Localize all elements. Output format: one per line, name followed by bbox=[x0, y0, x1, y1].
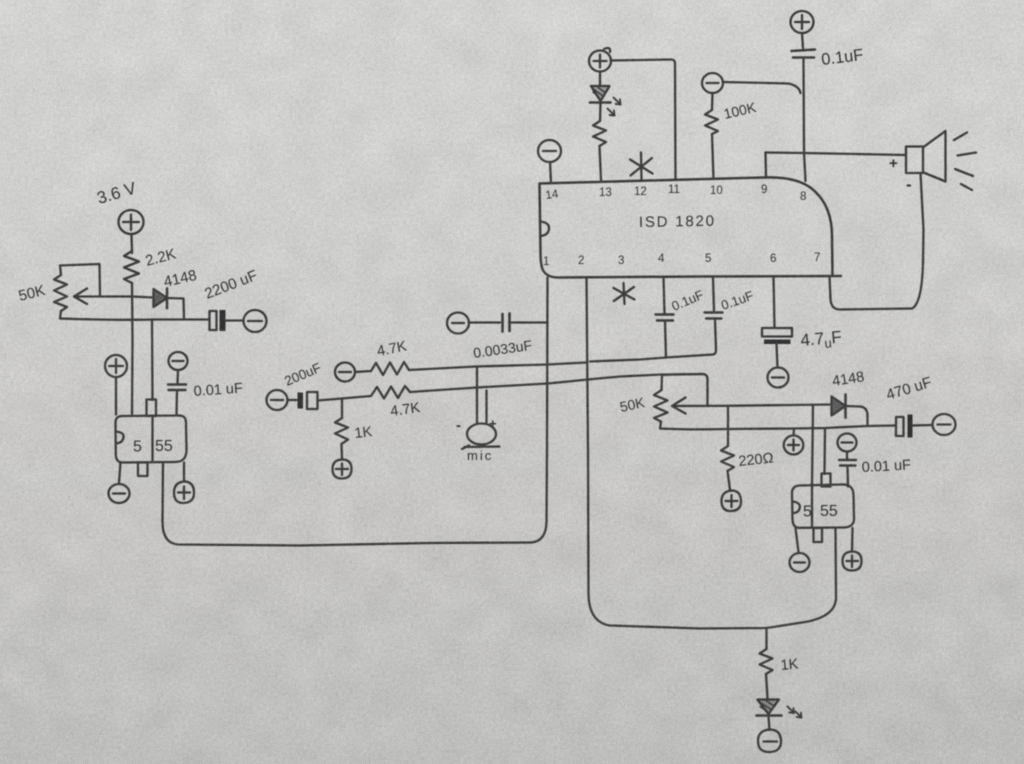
terminal minus before C4 bbox=[447, 313, 469, 334]
potentiometer VR1 50K bbox=[54, 275, 67, 311]
wire C5 down to pin 8 bbox=[804, 58, 806, 182]
pin box on top of U3 bbox=[822, 474, 831, 487]
wire U1 to minus terminal below bbox=[119, 463, 121, 484]
resistor R7 220 ohm bbox=[721, 446, 734, 471]
wire + to C5 bbox=[802, 33, 803, 48]
terminal minus above pin 14 bbox=[538, 140, 561, 162]
terminal + below U1 bbox=[174, 482, 194, 504]
terminal minus above R6 bbox=[702, 73, 723, 93]
mic polarity marks bbox=[456, 416, 497, 434]
terminal minus at bottom bbox=[758, 730, 781, 753]
wire R1 down to 555 U1 bbox=[131, 283, 134, 414]
pin number 10 bbox=[710, 185, 723, 197]
pin number 1 bbox=[543, 256, 549, 268]
resistor R8 1K bbox=[760, 649, 773, 674]
terminal minus after C9 bbox=[933, 414, 956, 435]
notch of U1 bbox=[116, 432, 124, 444]
wire pin 4 down bbox=[664, 277, 665, 313]
terminal minus below U1 bbox=[109, 484, 130, 503]
label 0.01 uF right bbox=[861, 457, 911, 476]
pin number 6 bbox=[770, 253, 776, 265]
wire rail A to 0.1uF caps rail bbox=[409, 355, 713, 371]
terminal + left of U1 bbox=[105, 355, 127, 377]
wire minus to C10 bbox=[846, 452, 848, 460]
speaker polarity marks bbox=[889, 155, 912, 194]
resistor R2 1K bbox=[335, 418, 348, 444]
wire minus to C3 bbox=[288, 399, 297, 401]
wire pin2 of U2 down around bottom loop to U3 bbox=[587, 278, 837, 629]
pin number 9 bbox=[761, 184, 767, 196]
label 200uF bbox=[282, 360, 323, 389]
speaker sound lines bbox=[954, 133, 976, 191]
label 1K bbox=[354, 424, 374, 442]
wire wiper line down through rail to R7 bbox=[727, 406, 729, 446]
LED LED2 bbox=[757, 700, 782, 716]
wire minus to R6 bbox=[711, 93, 714, 110]
wire U3 to plus below bbox=[851, 528, 854, 551]
wire diode-line junction down to U3 bbox=[812, 406, 813, 528]
potentiometer VR2 50K bbox=[654, 390, 668, 422]
wire + to LED1 bbox=[599, 72, 601, 86]
LED2 light arrows bbox=[788, 707, 802, 718]
pin number 3 bbox=[618, 255, 624, 267]
terminal + on rail bbox=[784, 429, 804, 455]
wire pin 6 down bbox=[774, 277, 775, 327]
pin number 12 bbox=[634, 186, 647, 198]
LED1 light arrows bbox=[608, 98, 621, 116]
wire minus terminal to C2 bbox=[176, 370, 179, 383]
mic terminal wires bbox=[477, 368, 487, 424]
terminal minus after C1 bbox=[244, 310, 267, 332]
capacitor C3 200uF bbox=[298, 392, 343, 409]
resistor R3 4.7K lower bbox=[342, 386, 410, 399]
label 2200 uF bbox=[202, 267, 259, 303]
pin box below U1 bbox=[138, 463, 148, 477]
terminal minus before R4 bbox=[335, 363, 355, 382]
label 4148 right bbox=[831, 369, 865, 390]
wire R6 to pin 10 bbox=[712, 134, 714, 179]
terminal + below R7 bbox=[722, 491, 742, 512]
label 2.2K bbox=[144, 245, 178, 269]
label 3.6 V bbox=[95, 178, 139, 207]
wire R8 to LED2 bbox=[766, 674, 768, 698]
label 4.7K upper bbox=[376, 338, 409, 359]
label 50K bbox=[17, 282, 47, 305]
capacitor C6 0.1uF bbox=[656, 315, 674, 321]
wire VR1 bottom rail to C1 bbox=[60, 311, 209, 320]
wire VR1 top loop to wiper bbox=[60, 264, 100, 296]
wire C6 to rail A bbox=[665, 321, 666, 358]
wire through U1 body bbox=[151, 416, 153, 461]
IC U2 ISD1820 body bbox=[540, 177, 842, 277]
wire pin 5 down bbox=[713, 278, 714, 312]
pin box on top of U1 bbox=[147, 400, 157, 417]
wire pin 9 up bbox=[764, 153, 767, 178]
wire to speaker + bbox=[766, 153, 907, 156]
capacitor C8 4.7uF bbox=[762, 328, 792, 344]
wiper arrow of VR2 bbox=[672, 398, 830, 414]
wire R5 to pin 13 bbox=[600, 146, 602, 180]
capacitor C9 470uF bbox=[896, 415, 931, 438]
star mark above pin 12 bbox=[630, 153, 653, 181]
label 0.1uF pin4 bbox=[669, 287, 706, 314]
wiper arrow of VR1 bbox=[74, 289, 153, 305]
wire C8 to minus terminal bbox=[777, 344, 778, 367]
pin number 4 bbox=[658, 253, 665, 265]
wire U1 to plus terminal below bbox=[183, 463, 185, 482]
timer U1 555 body bbox=[115, 415, 186, 462]
terminal + above LED1 bbox=[589, 48, 611, 72]
label 50K right bbox=[618, 394, 646, 415]
wire LED2 to minus terminal bbox=[769, 717, 770, 730]
terminal minus above C2 bbox=[169, 352, 188, 370]
terminal minus before C3 bbox=[267, 390, 288, 410]
wire minus terminal right to C5 line bbox=[723, 82, 801, 93]
wire D1 to lower rail bbox=[167, 298, 184, 319]
capacitor C2 0.01uF bbox=[168, 385, 186, 415]
star mark below pin 3 bbox=[614, 283, 635, 304]
capacitor C5 0.1uF bbox=[792, 50, 816, 58]
speaker SP1 bbox=[906, 131, 946, 182]
LED LED1 bbox=[590, 86, 611, 103]
microphone MIC1 bbox=[462, 424, 500, 450]
wire + terminal to U1 bbox=[115, 377, 117, 415]
wire B1 to R1 bbox=[130, 234, 133, 253]
label 5 55 inside U3 bbox=[803, 503, 838, 521]
wire R2 to plus terminal bbox=[340, 444, 343, 459]
wire VR2 bottom rail to C9 bbox=[660, 422, 895, 430]
label 0.01 uF bbox=[193, 381, 243, 400]
label 0.1uF pin5 bbox=[719, 288, 755, 313]
label 100K bbox=[722, 99, 758, 122]
label 1K right bbox=[780, 656, 799, 674]
wire U3 to minus below bbox=[796, 528, 799, 552]
terminal + above C5 bbox=[791, 11, 814, 33]
wire LED1 to R5 bbox=[599, 103, 602, 121]
wire U1 output down and right (long bottom run) bbox=[162, 463, 531, 546]
terminal + below U3 bbox=[843, 552, 862, 571]
label ISD 1820 bbox=[639, 213, 716, 231]
label 5 55 inside U1 bbox=[133, 438, 173, 456]
wire speaker to pin 7 bbox=[830, 173, 924, 310]
capacitor C4 0.0033uF bbox=[503, 314, 548, 332]
resistor R5 bbox=[593, 121, 606, 146]
wire D2 out to lower rail bbox=[846, 406, 868, 426]
wire + terminal to pin 11 bbox=[611, 60, 676, 180]
pin number 2 bbox=[578, 255, 584, 267]
wire minus to C4 bbox=[469, 321, 501, 323]
wire R7 to plus terminal bbox=[728, 471, 731, 490]
terminal minus below U3 bbox=[790, 553, 810, 572]
capacitor C7 0.1uF bbox=[705, 313, 723, 319]
label 4.7uF bbox=[800, 327, 843, 353]
label 470 uF bbox=[884, 374, 934, 404]
wire minus to R4 bbox=[355, 371, 371, 372]
wire loop junction down to R8 bbox=[765, 628, 767, 649]
wire rail B to potentiometer VR2 loop bbox=[410, 374, 703, 392]
battery + terminal B1 bbox=[119, 210, 144, 234]
notch of U2 bbox=[540, 222, 549, 237]
wire rail down to U3 pin box bbox=[823, 429, 826, 475]
notch of U3 bbox=[793, 502, 800, 514]
label 4148 bbox=[162, 267, 198, 291]
capacitor C1 2200uF bbox=[210, 310, 244, 331]
capacitor C10 0.01uF bbox=[839, 460, 856, 487]
diode D1 4148 bbox=[154, 289, 168, 309]
wire junction down to R2 bbox=[341, 399, 343, 419]
diode D2 4148 bbox=[832, 395, 846, 418]
wire VR2 top loop bbox=[662, 374, 708, 406]
resistor R6 100K bbox=[705, 110, 718, 134]
timer U3 555 body bbox=[792, 484, 854, 527]
label 0.1uF top bbox=[820, 46, 864, 69]
resistor R1 2.2K bbox=[124, 251, 139, 283]
label 220 ohm bbox=[738, 450, 775, 470]
wire junction down from rail to U1 pin bbox=[151, 320, 154, 400]
pin number 5 bbox=[705, 253, 711, 265]
pin number 11 bbox=[668, 184, 680, 196]
resistor R4 4.7K upper bbox=[371, 362, 409, 375]
terminal minus below C8 bbox=[768, 368, 789, 388]
pin number 7 bbox=[814, 252, 820, 264]
wire C7 to rail A bbox=[713, 319, 716, 355]
wire pin1 of U2 down to long bottom run bbox=[531, 278, 548, 543]
terminal + below R2 bbox=[333, 460, 352, 479]
pin number 14 bbox=[545, 188, 560, 202]
label 4.7K lower bbox=[389, 400, 421, 420]
pin number 8 bbox=[800, 191, 806, 203]
pin box below U3 bbox=[814, 528, 823, 542]
label mic bbox=[467, 448, 493, 463]
terminal minus above C10 bbox=[838, 434, 857, 452]
pin number 13 bbox=[599, 187, 612, 199]
wire pin 14 bbox=[550, 162, 551, 183]
label 0.0033uF bbox=[472, 337, 533, 361]
